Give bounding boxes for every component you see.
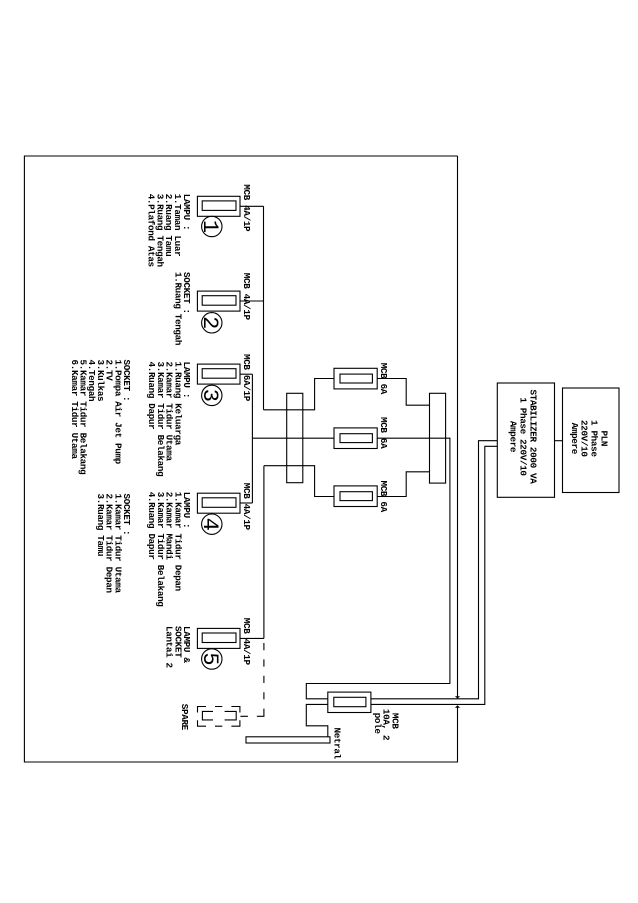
- wire group MCB B through right busbar to main MCB phase: [306, 438, 450, 699]
- wire stabilizer phase to main MCB: [371, 441, 497, 699]
- label MCB 6A group C: [378, 481, 389, 513]
- wire stabilizer neutral to main MCB: [371, 446, 497, 704]
- label list lamps circuit 1: [145, 194, 192, 268]
- label MCB 6A/1P for MCB3: [241, 354, 252, 402]
- svg-text:MCB 4A/1P: MCB 4A/1P: [241, 273, 252, 321]
- MCB 1 breaker symbol inner: [202, 201, 236, 211]
- wire trunk1 to group MCB A (crosses left busbar): [264, 379, 335, 410]
- svg-text:3: 3: [197, 389, 222, 402]
- label MCB 4A/1P for MCB4: [241, 483, 252, 531]
- label MCB 4A/1P for MCB2: [241, 273, 252, 321]
- svg-text:Ampere: Ampere: [508, 421, 519, 453]
- group MCB C 6A symbol inner: [340, 492, 372, 501]
- wire trunk2: [251, 374, 253, 503]
- MCB 4 breaker symbol outer: [197, 493, 240, 513]
- label PLN source: [569, 420, 610, 457]
- digit 4 in circle: [197, 518, 222, 531]
- wire group MCB A to right busbar: [377, 379, 429, 406]
- wire MCB5 to trunk3: [240, 637, 264, 639]
- MCB 2 breaker symbol inner: [202, 296, 236, 306]
- label neutral busbar: [332, 728, 343, 760]
- svg-text:SPARE: SPARE: [179, 704, 190, 731]
- label MCB 4A/1P for MCB1: [241, 184, 252, 232]
- circuit number 3 circle: [202, 385, 222, 405]
- wire trunk3 to group MCB C (crosses left busbar): [264, 466, 334, 497]
- wire group MCB C to right busbar: [377, 472, 429, 497]
- PLN source box: [563, 388, 620, 493]
- svg-text:MCB 4A/1P: MCB 4A/1P: [241, 483, 252, 531]
- wire MCB3 to trunk2: [240, 373, 252, 375]
- svg-text:MCB 4A/1P: MCB 4A/1P: [241, 618, 252, 666]
- group MCB B 6A symbol outer: [334, 428, 377, 449]
- digit 2 in circle: [197, 316, 222, 329]
- group MCB A 6A symbol outer: [334, 368, 377, 389]
- circuit number 5 circle: [202, 649, 222, 669]
- svg-text:4.Ruang Dapur: 4.Ruang Dapur: [146, 492, 157, 560]
- wire PLN to stabilizer: [555, 440, 563, 442]
- svg-text:pole: pole: [372, 713, 383, 735]
- svg-text:1.Ruang Tengah: 1.Ruang Tengah: [172, 272, 183, 346]
- supply entry arrow (down) on phase wire: [455, 696, 460, 698]
- wire MCB4 to trunk2: [240, 502, 252, 504]
- label list sockets circuit 4: [95, 494, 132, 594]
- svg-text:MCB 6A: MCB 6A: [378, 417, 389, 449]
- svg-text:4: 4: [197, 518, 222, 531]
- svg-text:5: 5: [197, 652, 222, 665]
- spare breaker symbol inner (dashed): [202, 711, 236, 720]
- svg-text:Ampere: Ampere: [569, 423, 580, 455]
- distribution busbar left: [287, 393, 303, 482]
- wire spare drop (dashed): [240, 643, 264, 716]
- label main MCB 10A 2 pole: [372, 709, 400, 741]
- digit 3 in circle: [197, 389, 222, 402]
- svg-text:3.Ruang Tamu: 3.Ruang Tamu: [95, 494, 106, 557]
- label MCB 6A group B: [378, 417, 389, 449]
- label list lamps circuit 4: [146, 492, 192, 608]
- MCB 5 breaker symbol inner: [202, 633, 236, 643]
- circuit number 2 circle: [202, 313, 222, 333]
- label list sockets circuit 3: [69, 360, 132, 476]
- wire trunk2 to group MCB B (crosses left busbar): [252, 437, 334, 439]
- MCB 2 breaker symbol outer: [197, 291, 240, 311]
- svg-text:Netral: Netral: [332, 728, 343, 760]
- spare breaker symbol outer (dashed): [198, 707, 240, 727]
- label list sockets circuit 2: [172, 272, 192, 346]
- digit 5 in circle: [197, 652, 222, 665]
- wire main MCB neutral to neutral busbar: [306, 704, 328, 736]
- circuit number 4 circle: [202, 514, 222, 534]
- group MCB A 6A symbol inner: [340, 374, 372, 383]
- svg-text:MCB 6A/1P: MCB 6A/1P: [241, 354, 252, 402]
- group MCB B 6A symbol inner: [340, 434, 372, 443]
- label MCB 6A group A: [378, 363, 389, 395]
- MCB 4 breaker symbol inner: [202, 498, 236, 508]
- label circuit 5 lamps and sockets floor 2: [164, 626, 192, 669]
- MCB 3 breaker symbol inner: [202, 369, 236, 379]
- label stabilizer: [508, 390, 539, 485]
- MCB 5 breaker symbol outer: [197, 628, 240, 648]
- wire MCB1 to trunk1: [240, 205, 264, 207]
- neutral busbar: [246, 737, 330, 743]
- MCB 1 breaker symbol outer: [197, 196, 240, 216]
- digit 1 in circle: [197, 220, 222, 233]
- svg-text:Lantai 2: Lantai 2: [164, 626, 175, 669]
- main MCB 10A 2-pole symbol outer: [328, 692, 371, 712]
- stabilizer box: [497, 383, 554, 497]
- group MCB C 6A symbol outer: [334, 486, 377, 507]
- svg-text:4.Plafond Atas: 4.Plafond Atas: [145, 194, 156, 268]
- wire MCB2 to trunk1: [240, 300, 264, 302]
- supply entry arrow (up) on neutral wire: [455, 705, 460, 707]
- label spare breaker: [179, 704, 190, 731]
- svg-text:4.Ruang Dapur: 4.Ruang Dapur: [146, 362, 157, 430]
- svg-text:MCB 4A/1P: MCB 4A/1P: [241, 184, 252, 232]
- label MCB 4A/1P for MCB5: [241, 618, 252, 666]
- panel enclosure border (right edge broken at supply entry): [24, 156, 457, 762]
- svg-text:MCB 6A: MCB 6A: [378, 481, 389, 513]
- wire trunk1: [263, 206, 265, 409]
- label list lamps circuit 3: [146, 362, 192, 478]
- circuit number 1 circle: [202, 216, 222, 236]
- distribution busbar right: [430, 393, 446, 483]
- main MCB 10A 2-pole symbol inner: [334, 697, 366, 706]
- wire trunk3: [263, 466, 265, 639]
- svg-text:MCB 6A: MCB 6A: [378, 363, 389, 395]
- svg-text:6.Kamar Tidur Utama: 6.Kamar Tidur Utama: [69, 360, 80, 460]
- MCB 3 breaker symbol outer: [197, 364, 240, 384]
- svg-text:2: 2: [197, 316, 222, 329]
- svg-text:1: 1: [197, 220, 222, 233]
